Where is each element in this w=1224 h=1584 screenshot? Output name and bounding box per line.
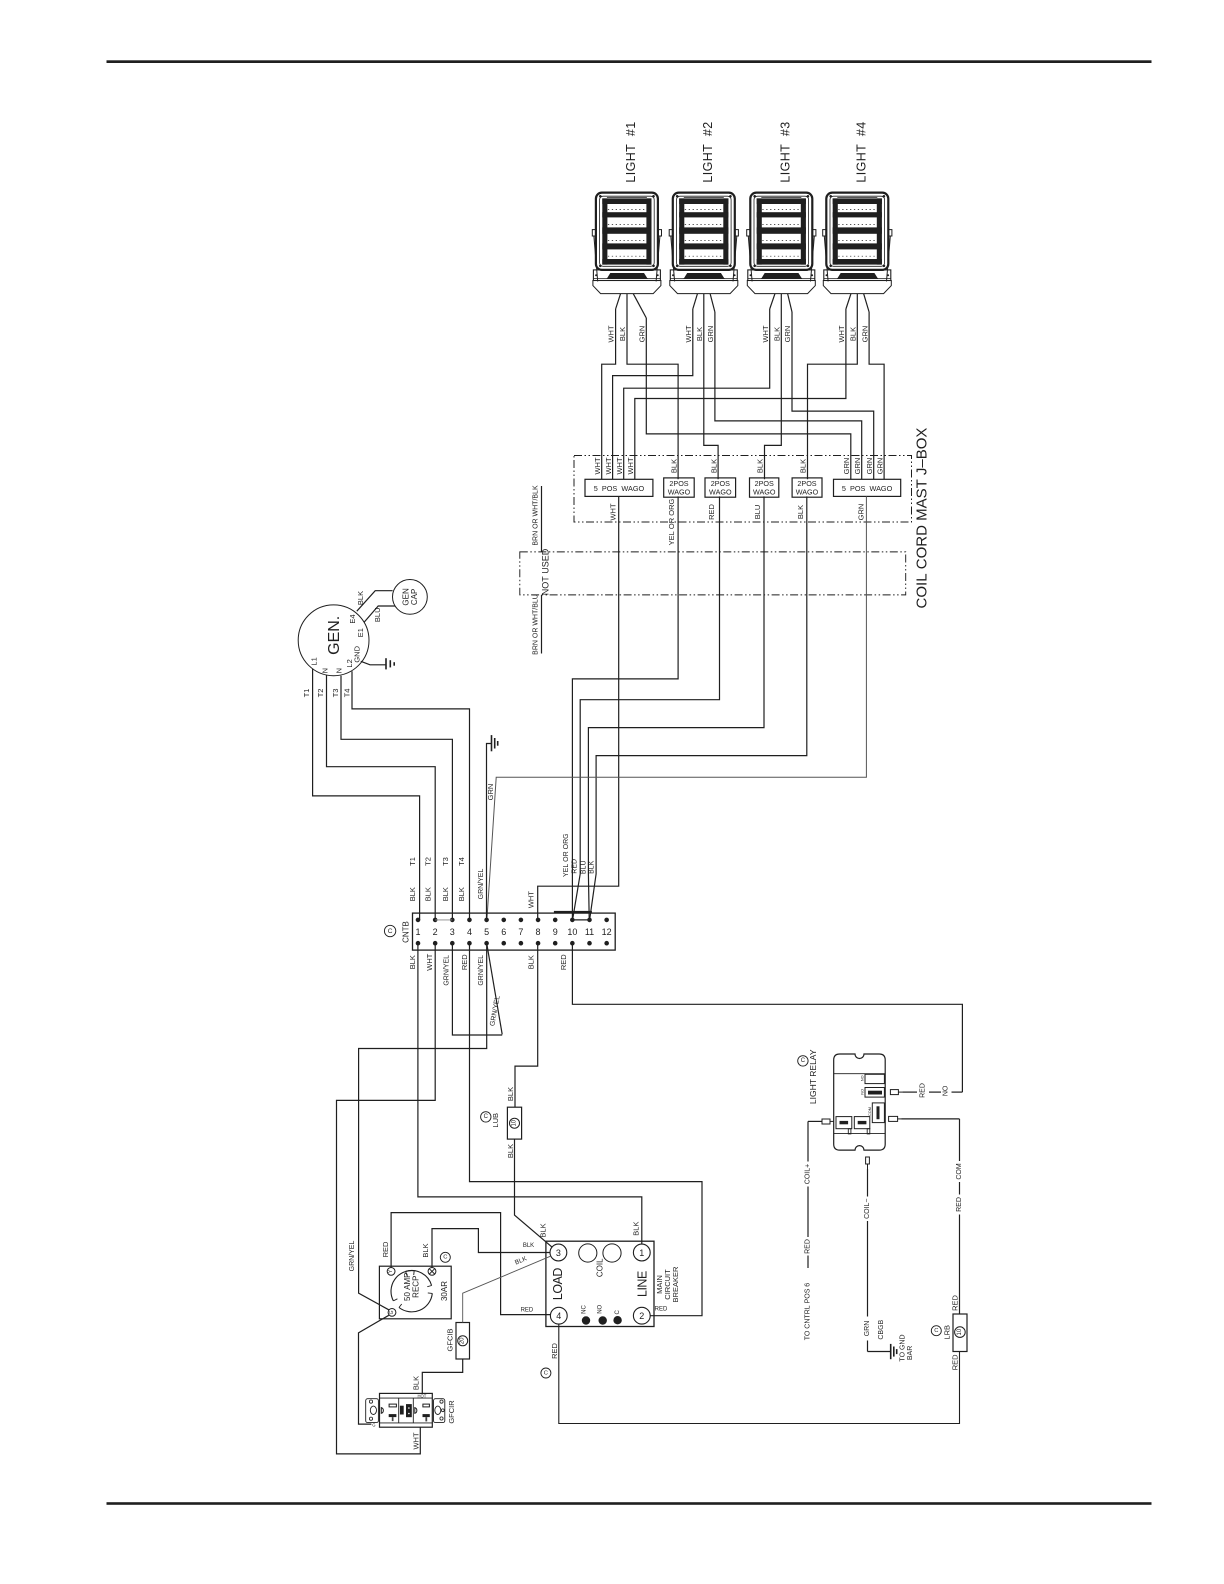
wire WHT light1 to WAGO1 pin1 — [602, 309, 616, 479]
svg-text:LIGHT #1: LIGHT #1 — [624, 121, 638, 182]
wire WHT lead light 4 — [846, 294, 851, 309]
aux contact dots breaker — [582, 1316, 590, 1324]
coil circle b breaker — [603, 1244, 621, 1262]
svg-text:RED: RED — [571, 859, 578, 874]
svg-text:WHT: WHT — [604, 457, 613, 474]
receptacle 50 AMP RECEP box — [379, 1266, 451, 1319]
svg-text:CAP: CAP — [410, 589, 419, 605]
receptacle 50 AMP RECEP face — [391, 1270, 432, 1311]
wire COIL- to ground bar — [867, 1169, 869, 1197]
svg-text:BLK: BLK — [539, 1223, 548, 1237]
svg-text:RED: RED — [707, 504, 716, 520]
light fixture LIGHT #1 — [592, 193, 661, 294]
connector 2POS WAGO #3 — [750, 478, 779, 497]
svg-text:COM: COM — [868, 1107, 872, 1116]
svg-text:C: C — [615, 1309, 621, 1314]
svg-text:NO: NO — [860, 1089, 864, 1095]
svg-text:WHT: WHT — [608, 503, 617, 520]
wire WHT light2 to WAGO1 pin2 — [613, 309, 693, 479]
svg-text:NO: NO — [597, 1304, 603, 1313]
svg-text:BLK: BLK — [773, 327, 782, 341]
light fixture LIGHT #4 — [823, 193, 892, 294]
ground symbol TO GND BAR — [890, 1344, 892, 1359]
wire RED wago3 output to CNTB 10 — [573, 496, 720, 918]
svg-text:WHT: WHT — [593, 457, 602, 474]
wire unused conductor stub lower — [541, 595, 543, 654]
svg-text:RED: RED — [950, 1295, 959, 1311]
relay coil blade A — [836, 1117, 852, 1129]
svg-text:1: 1 — [639, 1248, 644, 1258]
light fixture LIGHT #2 — [669, 193, 738, 294]
svg-text:T1: T1 — [302, 689, 311, 698]
svg-text:COIL−: COIL− — [864, 1198, 871, 1218]
coil circle a breaker — [579, 1244, 597, 1262]
terminal 2 dots — [433, 918, 438, 923]
relay blade NO upper — [865, 1074, 884, 1083]
svg-text:NO: NO — [943, 1085, 950, 1096]
svg-text:BLK: BLK — [669, 459, 678, 473]
svg-text:GRN/YEL: GRN/YEL — [478, 955, 485, 986]
svg-text:BLK: BLK — [441, 887, 450, 901]
svg-text:E1: E1 — [356, 628, 365, 637]
svg-text:5 POS WAGO: 5 POS WAGO — [842, 484, 893, 493]
wire WHT lead light 3 — [770, 294, 775, 309]
svg-text:WHT: WHT — [761, 325, 770, 342]
connector 5 POS WAGO (GRN) — [834, 479, 901, 496]
wire RED COIL+ to control — [808, 1120, 822, 1122]
wire WHT wago1 output to CNTB 8 — [538, 496, 619, 920]
relay terminal COIL- spade — [866, 1157, 870, 1164]
terminal 1 dots — [416, 918, 421, 923]
svg-text:T2: T2 — [316, 689, 325, 698]
svg-text:RED: RED — [950, 1354, 959, 1370]
wire GRN wago6 output to CNTB 5 — [487, 496, 867, 920]
svg-text:12: 12 — [602, 927, 612, 937]
wire WHT light3 to WAGO1 pin3 — [624, 309, 770, 479]
terminal 9 dots — [553, 918, 558, 923]
marker circled C breaker red wire — [541, 1368, 551, 1378]
wire RED breaker LOAD 4 to LRB rail — [559, 1324, 960, 1423]
svg-text:WHT: WHT — [425, 953, 434, 970]
wire RED relay NO — [902, 1091, 917, 1093]
svg-text:8: 8 — [536, 927, 541, 937]
terminal 8 dots — [536, 918, 541, 923]
svg-text:RED: RED — [381, 1241, 390, 1257]
connector 2POS WAGO #2 — [705, 478, 736, 497]
svg-text:LIGHT #4: LIGHT #4 — [855, 121, 869, 182]
svg-text:GFCIB: GFCIB — [446, 1329, 455, 1352]
svg-text:WHT: WHT — [837, 325, 846, 342]
svg-text:BLK: BLK — [588, 860, 595, 874]
svg-text:5: 5 — [484, 927, 489, 937]
svg-text:BLK: BLK — [849, 327, 858, 341]
terminal 12 dots — [604, 918, 609, 923]
svg-text:BLK: BLK — [618, 327, 627, 341]
terminal 3 breaker — [550, 1244, 567, 1261]
svg-text:BLK: BLK — [411, 1376, 420, 1390]
relay terminal COM spade — [889, 1116, 898, 1121]
svg-text:WHT: WHT — [527, 891, 536, 908]
svg-text:LRB: LRB — [942, 1325, 951, 1340]
svg-text:GRN: GRN — [638, 326, 647, 343]
svg-text:RED: RED — [919, 1083, 926, 1098]
svg-text:YEL OR ORG: YEL OR ORG — [563, 833, 570, 877]
wire BLK receptacle X to breaker LOAD 3 — [432, 1229, 550, 1268]
svg-text:BRN OR WHT/BLU: BRN OR WHT/BLU — [532, 594, 539, 655]
wire WHT lead light 2 — [693, 294, 698, 309]
svg-text:G: G — [389, 1310, 395, 1314]
wire T1 generator to CNTB 1 — [313, 669, 420, 920]
terminal X receptacle — [428, 1268, 436, 1276]
svg-text:T3: T3 — [331, 689, 340, 698]
svg-text:2: 2 — [639, 1311, 644, 1321]
wire RED COM relay to LRB — [902, 1118, 960, 1120]
wire GND generator — [361, 661, 386, 665]
svg-text:WAGO: WAGO — [796, 487, 819, 496]
svg-text:CNTB: CNTB — [402, 921, 411, 943]
wire WHT lead light 1 — [616, 294, 621, 309]
terminal 4 dots — [467, 918, 472, 923]
svg-text:GRN: GRN — [853, 458, 862, 475]
svg-text:WAGO: WAGO — [668, 487, 691, 496]
svg-text:BLK: BLK — [506, 1087, 515, 1101]
wire T3 generator to CNTB 3 — [341, 676, 452, 920]
svg-text:NC: NC — [581, 1305, 587, 1314]
svg-text:GRN: GRN — [486, 784, 495, 801]
wire BLK light3 to WAGO4 — [765, 309, 782, 479]
svg-text:GRN: GRN — [783, 326, 792, 343]
marker circled C relay — [798, 1056, 808, 1066]
svg-text:T2: T2 — [424, 857, 433, 866]
ground symbol generator — [385, 658, 387, 669]
svg-text:WHT: WHT — [615, 457, 624, 474]
svg-text:T4: T4 — [457, 857, 466, 866]
wire GRN lead light 2 — [710, 294, 715, 312]
svg-text:RED: RED — [521, 1308, 534, 1314]
svg-text:BLK: BLK — [408, 955, 417, 969]
svg-text:BLU: BLU — [753, 505, 762, 520]
wire GRN lead light 1 — [633, 294, 646, 318]
wire GRN/YEL CNTB5 jumper to CNTB3 net — [487, 943, 503, 1034]
breaker MAIN CIRCUIT BREAKER box — [546, 1241, 654, 1326]
wire T4 generator to CNTB 4 — [352, 671, 470, 920]
svg-text:3: 3 — [450, 927, 455, 937]
svg-text:BLK: BLK — [695, 327, 704, 341]
terminal 10 dots — [570, 918, 575, 923]
svg-text:GRN: GRN — [706, 326, 715, 343]
svg-text:1: 1 — [415, 927, 420, 937]
marker circled C LUB — [481, 1112, 491, 1122]
svg-text:BLU: BLU — [373, 608, 382, 623]
svg-text:4: 4 — [556, 1311, 561, 1321]
svg-text:BLK: BLK — [709, 459, 718, 473]
relay blade NO lower — [865, 1088, 884, 1098]
wire BLK CNTB8 to LUB fuse — [515, 943, 538, 1107]
coil cord NOT USED boundary — [520, 552, 906, 595]
terminal 6 dots — [501, 918, 506, 923]
marker circled C CNTB — [384, 925, 395, 936]
terminal 3 dots — [450, 918, 455, 923]
wire WHT CNTB2 to GFCIR — [337, 943, 436, 1454]
border rule top — [107, 60, 1152, 63]
wire T2 generator to CNTB 2 — [327, 675, 436, 920]
svg-text:6: 6 — [501, 927, 506, 937]
svg-text:TO CNTRL POS 6: TO CNTRL POS 6 — [805, 1283, 812, 1341]
svg-text:BREAKER: BREAKER — [671, 1266, 680, 1302]
svg-text:T3: T3 — [441, 857, 450, 866]
svg-text:C: C — [443, 1255, 447, 1261]
svg-text:GRN/YEL: GRN/YEL — [478, 869, 485, 900]
terminal 7 dots — [519, 918, 524, 923]
svg-text:BLK: BLK — [796, 505, 805, 519]
wire RED receptacle Y to breaker LOAD 4 — [391, 1213, 550, 1315]
terminal strip CNTB — [413, 913, 616, 950]
wire GRN light1 to WAGO6 pin1 — [646, 318, 851, 479]
svg-text:2: 2 — [433, 927, 438, 937]
svg-text:GRN: GRN — [856, 504, 865, 521]
terminal Y receptacle — [387, 1268, 395, 1276]
svg-text:RED: RED — [655, 1307, 668, 1313]
svg-text:G: G — [372, 1422, 375, 1427]
svg-text:GND: GND — [352, 645, 361, 662]
svg-text:WHT: WHT — [626, 457, 635, 474]
wire BLK CNTB1 to breaker LINE 1 — [418, 943, 642, 1244]
wire RED CNTB10 to relay NO — [572, 943, 962, 1092]
relay coil blade B — [854, 1117, 870, 1129]
capacitor GEN CAP circle — [393, 580, 428, 615]
svg-text:COM: COM — [956, 1163, 963, 1180]
svg-text:RED: RED — [559, 954, 568, 970]
svg-text:9: 9 — [553, 927, 558, 937]
svg-text:7: 7 — [518, 927, 523, 937]
wire GRN light2 to WAGO6 pin2 — [715, 312, 862, 479]
relay blade COM — [872, 1103, 884, 1123]
wire GRN/YEL ground to GFCIR — [359, 1315, 389, 1424]
svg-text:BLK: BLK — [506, 1144, 515, 1158]
svg-text:10: 10 — [567, 927, 577, 937]
svg-text:11: 11 — [585, 927, 594, 937]
svg-text:BLK: BLK — [457, 887, 466, 901]
svg-text:RED: RED — [550, 1343, 559, 1359]
svg-text:COIL: COIL — [595, 1258, 604, 1277]
border rule bottom — [107, 1502, 1152, 1505]
svg-text:BLK: BLK — [408, 887, 417, 901]
svg-text:GRN: GRN — [842, 458, 851, 475]
wire BLK lead light 3 — [780, 294, 782, 309]
svg-text:RECP: RECP — [412, 1276, 421, 1298]
connector 2POS WAGO #1 — [664, 478, 695, 497]
wire GRN lead light 4 — [864, 294, 870, 312]
svg-text:BLK: BLK — [756, 459, 765, 473]
svg-text:GEN: GEN — [401, 588, 410, 606]
relay LIGHT RELAY body — [834, 1054, 886, 1150]
relay terminal COIL+ spade — [822, 1119, 830, 1124]
svg-text:C: C — [544, 1370, 548, 1376]
fuse LRB — [953, 1314, 967, 1352]
wire BLK lead light 1 — [626, 294, 628, 309]
wire BLK light1 to WAGO2 — [627, 309, 678, 479]
terminal G receptacle — [388, 1309, 396, 1317]
svg-text:3: 3 — [556, 1248, 561, 1258]
wire BLK lead light 2 — [703, 294, 705, 309]
svg-text:GEN.: GEN. — [326, 616, 343, 655]
svg-text:RED: RED — [956, 1197, 963, 1212]
svg-text:5 POS WAGO: 5 POS WAGO — [594, 484, 645, 493]
svg-text:T4: T4 — [342, 689, 351, 698]
wire GRN/YEL CNTB3 down — [452, 943, 502, 1035]
light fixture LIGHT #3 — [747, 193, 816, 294]
svg-text:LIGHT #2: LIGHT #2 — [701, 121, 715, 182]
svg-text:LINE: LINE — [635, 1271, 649, 1297]
svg-text:WHT: WHT — [411, 1432, 420, 1449]
svg-text:WHT: WHT — [684, 325, 693, 342]
connector 5 POS WAGO (WHT) — [585, 479, 653, 496]
terminal 11 dots — [587, 918, 592, 923]
svg-text:BLK: BLK — [799, 459, 808, 473]
svg-text:COIL+: COIL+ — [805, 1164, 812, 1184]
wire WHT light4 to WAGO1 pin4 — [635, 309, 846, 479]
svg-text:E4: E4 — [348, 614, 357, 623]
svg-text:RED: RED — [805, 1239, 812, 1254]
svg-text:GRN: GRN — [860, 326, 869, 343]
svg-text:GRN: GRN — [865, 458, 874, 475]
svg-text:YEL OR ORG: YEL OR ORG — [667, 499, 676, 546]
wire BLK gen E4 to cap — [357, 591, 393, 612]
svg-text:NO: NO — [860, 1075, 864, 1081]
svg-text:LIGHT RELAY: LIGHT RELAY — [808, 1049, 818, 1104]
svg-text:BLU: BLU — [580, 860, 587, 874]
terminal 2 breaker — [633, 1307, 650, 1324]
wire BLK light4 to WAGO5 — [808, 309, 858, 479]
svg-text:T1: T1 — [408, 857, 417, 866]
svg-text:30AR: 30AR — [440, 1281, 449, 1301]
jumper CNTB 2-3 — [435, 919, 452, 921]
svg-text:WHT: WHT — [607, 325, 616, 342]
wire GRN/YEL CNTB5 to receptacle ground — [359, 943, 487, 1310]
svg-text:GRN: GRN — [875, 458, 884, 475]
wire GRN light3 to WAGO6 pin3 — [792, 312, 874, 479]
fuse LUB — [507, 1107, 521, 1139]
wire BLK LUB to breaker LOAD 3 — [515, 1139, 553, 1247]
svg-text:WAGO: WAGO — [753, 487, 776, 496]
svg-text:BLK: BLK — [527, 955, 536, 969]
svg-text:BLK: BLK — [523, 1243, 534, 1249]
svg-text:LOAD: LOAD — [551, 1268, 565, 1301]
svg-text:BLK: BLK — [421, 1243, 430, 1257]
svg-text:BLK: BLK — [424, 887, 433, 901]
wire BLK light2 to WAGO3 — [704, 309, 718, 479]
svg-text:4: 4 — [467, 927, 472, 937]
svg-text:BRN OR WHT/BLK: BRN OR WHT/BLK — [532, 485, 539, 546]
ground symbol at CNTB 5 — [491, 735, 493, 751]
terminal 4 breaker — [550, 1307, 567, 1324]
svg-text:N: N — [334, 668, 343, 673]
svg-text:WAGO: WAGO — [709, 487, 732, 496]
svg-text:GRN/YEL: GRN/YEL — [349, 1241, 356, 1272]
relay terminal NO spade — [890, 1090, 898, 1095]
svg-text:GRN: GRN — [864, 1321, 871, 1337]
terminal 5 dots — [484, 918, 489, 923]
svg-text:C: C — [801, 1058, 806, 1064]
svg-text:L1: L1 — [309, 657, 318, 665]
svg-text:CBGB: CBGB — [878, 1319, 885, 1339]
wire BLK GFCIB to GFCIR — [422, 1359, 462, 1393]
marker circled C LRB — [931, 1326, 941, 1336]
marker circled C receptacle — [440, 1252, 450, 1262]
wire GRN lead light 3 — [788, 294, 792, 312]
svg-text:C: C — [484, 1114, 489, 1120]
svg-text:TO GND: TO GND — [900, 1334, 907, 1361]
wire GRN/YEL CNTB 5 to ground — [487, 744, 492, 920]
svg-text:20: 20 — [460, 1337, 466, 1344]
jumper CNTB 10-11 — [572, 919, 589, 921]
wire BLU wago4 output to CNTB 11 — [588, 496, 764, 918]
svg-text:C: C — [388, 928, 393, 935]
wire GRN light4 to WAGO6 pin4 — [869, 312, 884, 479]
wire BLK GFCIB to breaker LOAD 3 — [463, 1256, 551, 1322]
wire BLU gen E1 to cap — [364, 606, 395, 622]
svg-text:RED: RED — [460, 954, 469, 970]
wire BLK wago5 output to CNTB 11 — [590, 496, 807, 918]
svg-text:LIGHT #3: LIGHT #3 — [779, 121, 793, 182]
receptacle GFCIR — [366, 1393, 445, 1427]
svg-text:10: 10 — [957, 1328, 963, 1335]
svg-text:C: C — [934, 1328, 938, 1334]
wire RED CNTB4 to breaker LINE 2 — [470, 943, 703, 1315]
generator GEN circle — [298, 605, 369, 676]
wire unused conductor stub upper — [541, 486, 543, 552]
bar above CNTB 10-11 — [554, 911, 592, 913]
svg-text:BAR: BAR — [907, 1346, 914, 1360]
svg-text:GFCIR: GFCIR — [447, 1400, 456, 1424]
terminal 1 breaker — [633, 1244, 650, 1261]
svg-text:NOT USED: NOT USED — [541, 548, 551, 595]
svg-text:N: N — [321, 668, 330, 673]
svg-text:BLK: BLK — [356, 591, 365, 605]
svg-text:COIL CORD MAST J–BOX: COIL CORD MAST J–BOX — [914, 428, 931, 609]
svg-text:LUB: LUB — [491, 1113, 500, 1128]
svg-text:HOT: HOT — [417, 1393, 426, 1398]
fuse GFCIB — [456, 1323, 470, 1360]
junction box COIL CORD MAST J-BOX boundary — [574, 456, 912, 523]
svg-text:BLK: BLK — [631, 1222, 640, 1236]
connector 2POS WAGO #4 — [792, 478, 822, 497]
svg-text:GRN/YEL: GRN/YEL — [444, 955, 451, 986]
wire BLK lead light 4 — [856, 294, 858, 309]
svg-text:10: 10 — [512, 1119, 518, 1126]
wire YEL OR ORG wago2 output to CNTB 10 — [572, 496, 678, 920]
